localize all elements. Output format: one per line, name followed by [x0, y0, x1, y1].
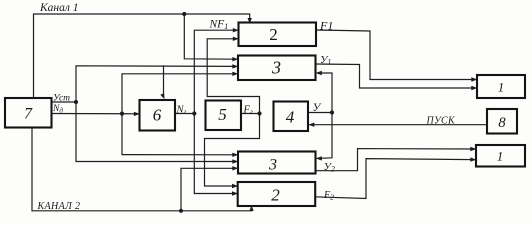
svg-text:У2: У2	[324, 161, 335, 174]
block 2 top	[239, 23, 317, 47]
node: Fг junction	[257, 111, 261, 115]
arrow: down into block 2 (top) top edge	[248, 18, 252, 24]
arrow: У into block 3 (top) right edge	[316, 71, 322, 75]
svg-text:1: 1	[498, 80, 505, 95]
block 1 top	[477, 75, 525, 98]
block 3 bottom	[238, 152, 316, 174]
block 8	[487, 109, 517, 134]
wire: Уст drop into block 6 top	[163, 66, 165, 97]
arrow: У2 into block 1 (bottom)	[470, 147, 476, 151]
wire: F1 output from block 2 (top) to block 1 (top)	[316, 30, 475, 80]
svg-text:6: 6	[153, 106, 162, 125]
node: Уст junction	[74, 100, 78, 104]
svg-text:F1: F1	[319, 19, 333, 33]
arrow: into block 6 input	[134, 112, 140, 116]
wire: У2 output from block 3 (bottom) to block 1 (bottom)	[316, 149, 475, 171]
arrow: into block 3 (bottom) input 1	[232, 153, 238, 157]
arrow: down into block 6 top edge	[160, 93, 164, 99]
svg-text:4: 4	[286, 108, 295, 127]
arrow: up into block 2 (bottom) bottom edge	[249, 206, 253, 212]
wire: Уст down to block 3 (bottom) input 2	[76, 102, 236, 162]
wire: У up into block 3 (top) right side	[318, 73, 333, 113]
arrow: into block 3 (top) input 2	[232, 64, 238, 68]
block 1 bottom	[476, 145, 525, 167]
arrow: into block 3 (top) input 1	[232, 57, 238, 61]
svg-text:F2: F2	[323, 190, 334, 202]
svg-text:Fг: Fг	[243, 104, 253, 116]
svg-text:8: 8	[498, 115, 506, 131]
svg-text:ПУСК: ПУСК	[426, 115, 457, 126]
wire: Fг up over block 5 into block 2 (top) input 2	[207, 39, 259, 114]
svg-text:1: 1	[497, 149, 504, 164]
wire: Nг output from block 6	[175, 113, 194, 115]
wire: Уст up to block 3 (top) input 2	[76, 66, 236, 102]
svg-text:КАНАЛ 2: КАНАЛ 2	[37, 201, 81, 212]
node: Nг junction	[192, 111, 196, 115]
arrow: into block 2 (bottom) input 2	[232, 191, 238, 195]
block 7	[5, 98, 52, 128]
svg-text:У1: У1	[320, 54, 331, 67]
arrow: into block 2 (top) input 2	[233, 37, 239, 41]
wire: ПУСК from block 8 to block 4	[310, 124, 487, 126]
arrow: ПУСК into block 4	[308, 123, 314, 127]
block 5	[206, 101, 242, 131]
arrow: F1 into block 1 (top)	[471, 77, 477, 81]
block 2 bottom	[238, 182, 316, 206]
wire: Канал 1 line from block 7 top, up and right, into block 2 top	[34, 14, 250, 98]
node: Nд junction	[120, 112, 124, 116]
wire: КАНАЛ 2 from block 7 bottom, down and right, up into block 2 (bottom)	[32, 128, 252, 211]
wire: Fг output from block 5	[241, 113, 260, 115]
wire: КАНАЛ 2 branch up to block 3 (bottom) input 3	[181, 168, 236, 211]
wire: Nг up (NF1) into block 2 (top) input 1	[194, 30, 236, 113]
svg-text:2: 2	[269, 25, 278, 44]
arrow: into block 2 (top) input 1	[233, 28, 239, 32]
wire: Fг down under block 5 into block 2 (bottom) input 1	[205, 114, 260, 187]
node: У junction	[330, 110, 334, 114]
svg-text:5: 5	[218, 105, 227, 124]
svg-text:Канал 1: Канал 1	[39, 2, 78, 14]
svg-text:3: 3	[268, 156, 277, 173]
arrow: У1 into block 1 (top)	[471, 86, 477, 90]
node: КАНАЛ 2 junction	[179, 209, 183, 213]
svg-text:2: 2	[271, 186, 280, 205]
wire: Nд output from block 7 into block 6	[52, 113, 138, 115]
arrow: У into block 3 (bottom) right edge	[316, 156, 322, 160]
svg-text:3: 3	[271, 58, 281, 78]
wire: Nд up to block 3 (top) input 3	[122, 74, 236, 114]
wire: У1 output from block 3 (top) to block 1 (top)	[316, 64, 476, 88]
wire: У output from block 4	[308, 112, 332, 114]
arrow: into block 3 (bottom) input 3	[232, 166, 238, 170]
arrow: F2 into block 1 (bottom)	[470, 157, 476, 161]
wire: Nд down to block 3 (bottom) input 1	[122, 114, 236, 155]
node: junction on Канал 1 line	[182, 12, 186, 16]
svg-text:Уст: Уст	[53, 94, 70, 104]
svg-text:Nд: Nд	[52, 104, 63, 115]
wire: Уст output from block 7	[52, 101, 77, 103]
wire: Канал 1 branch down to block 3 input 1	[184, 14, 236, 59]
block 4	[274, 102, 309, 132]
svg-text:7: 7	[24, 106, 33, 123]
arrow: into block 3 (top) input 3	[232, 72, 238, 76]
svg-text:NF1: NF1	[209, 19, 229, 32]
wire: F2 output from block 2 (bottom) to block 1 (bottom)	[315, 159, 474, 199]
arrow: into block 2 (bottom) input 1	[232, 184, 238, 188]
svg-text:У: У	[313, 102, 322, 114]
block 6	[140, 100, 176, 131]
wire: Nг down into block 2 (bottom) input 2	[194, 114, 235, 194]
arrow: into block 3 (bottom) input 2	[232, 159, 238, 163]
svg-text:Nг: Nг	[176, 104, 187, 116]
wire: У down into block 3 (bottom) right side	[318, 113, 333, 159]
block 3 top	[238, 56, 316, 81]
